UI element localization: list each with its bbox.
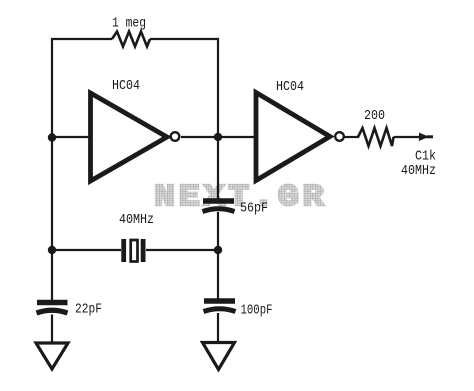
wire: C3 to ground [217, 313, 219, 343]
node B junction dot [214, 133, 222, 141]
wire: C1 to node D crystal junction and down to C3 [217, 212, 219, 300]
wire: C2 to ground [51, 315, 53, 345]
wire: top-left feedback loop (left vertical + top horizontal to R1) [52, 39, 112, 301]
wire: node A to U1 input [52, 136, 90, 138]
svg-text:56pF: 56pF [240, 201, 268, 217]
svg-text:NEXT.GR: NEXT.GR [154, 179, 324, 215]
svg-text:40MHz: 40MHz [119, 212, 154, 228]
resistor R1 1 meg [112, 32, 150, 47]
U1 output bubble [171, 132, 180, 141]
ground (middle) [203, 343, 235, 370]
svg-text:200: 200 [364, 108, 385, 124]
wire: R2 to output arrow [394, 136, 428, 138]
op-amp U2 inverter HC04 [256, 93, 330, 181]
svg-text:100pF: 100pF [241, 303, 273, 319]
svg-text:HC04: HC04 [276, 79, 304, 95]
capacitor C1 56pF [203, 198, 234, 203]
svg-text:22pF: 22pF [75, 302, 102, 318]
wire: node C to crystal Y1 [52, 249, 121, 251]
capacitor C3 100pF [204, 298, 235, 303]
wire: crystal to node D [146, 249, 218, 251]
output arrowhead [419, 133, 429, 141]
op-amp U1 inverter HC04 [91, 93, 168, 181]
resistor R2 200 [358, 128, 394, 146]
wire: node B down to C1 [217, 137, 219, 200]
wire: U2 output to R2 [344, 136, 359, 138]
node C junction dot [48, 246, 56, 254]
crystal Y1 40MHz [121, 239, 126, 262]
node D junction dot [214, 246, 222, 254]
ground (left) [36, 343, 68, 369]
svg-text:40MHz: 40MHz [401, 163, 436, 179]
wire: top horizontal from R1 to right vertical down to node B [150, 39, 218, 137]
svg-text:HC04: HC04 [112, 78, 140, 94]
svg-text:1 meg: 1 meg [112, 16, 146, 32]
node A junction dot [48, 133, 56, 141]
wire: U1 output to U2 input [181, 136, 256, 138]
U2 output bubble [335, 132, 344, 141]
capacitor C2 22pF [37, 300, 68, 306]
